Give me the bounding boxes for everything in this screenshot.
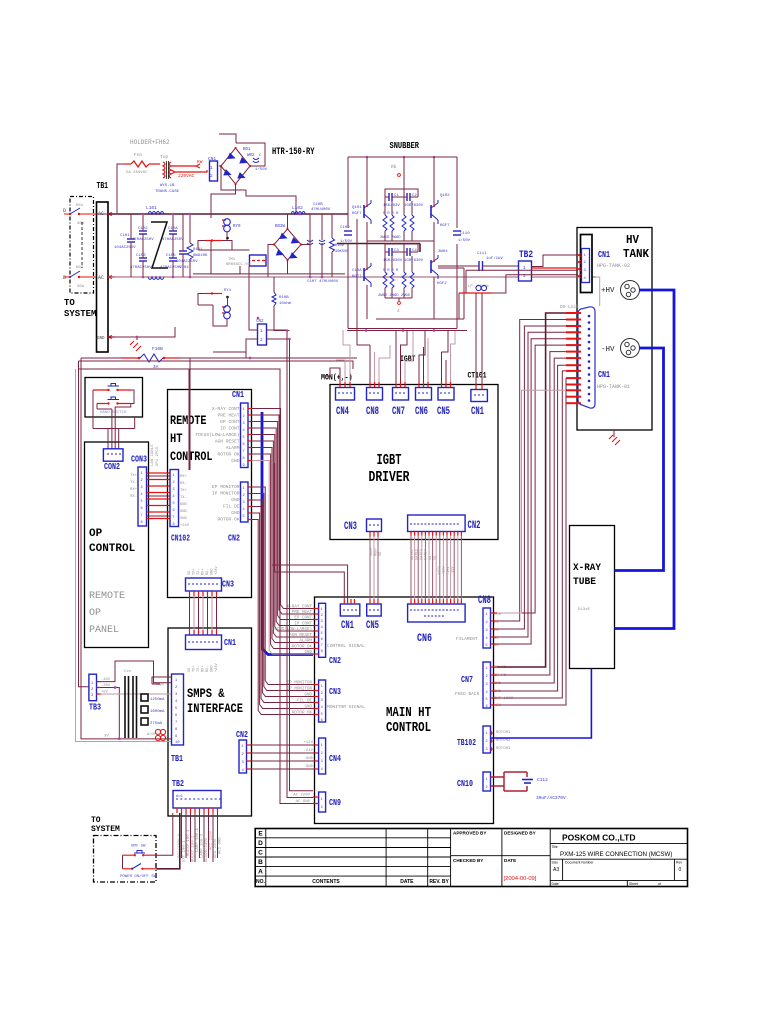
svg-text:EP CONT: EP CONT: [294, 617, 312, 621]
svg-text:CON2: CON2: [104, 462, 120, 472]
connector CN3 (remote bottom): [186, 578, 222, 591]
red wires CON3 to CN102: [147, 473, 171, 519]
svg-text:-48V: -48V: [101, 678, 111, 682]
svg-text:GND: GND: [97, 337, 105, 341]
svg-text:TB3: TB3: [89, 702, 101, 713]
CN9 pin labels: [293, 794, 310, 805]
svg-text:HAND SWITCH: HAND SWITCH: [100, 411, 127, 415]
TB1 terminal column: [97, 202, 109, 352]
svg-text:2: 2: [243, 494, 245, 498]
svg-text:CN3: CN3: [344, 521, 357, 533]
wire TB1 top loop: [152, 677, 172, 684]
svg-text:AC100/240V: AC100/240V: [204, 837, 209, 862]
svg-text:2W6D 2W6D 2W6D: 2W6D 2W6D 2W6D: [378, 294, 411, 298]
TB1 dashed switch box (left): [70, 197, 94, 294]
HV wire +HV: [615, 290, 675, 629]
svg-text:Txp: Txp: [160, 154, 168, 160]
svg-text:CN2: CN2: [329, 655, 341, 666]
junction dots: [114, 686, 117, 689]
svg-text:Sheet: Sheet: [629, 882, 638, 886]
fuse Fnn (holder): [124, 152, 160, 175]
approval labels: [453, 831, 536, 864]
svg-text:C: C: [258, 850, 263, 857]
svg-text:Q101: Q101: [352, 206, 362, 210]
red stubs CN7 right: [491, 667, 498, 705]
svg-text:4: 4: [321, 706, 323, 710]
svg-text:AGN RESET: AGN RESET: [289, 634, 312, 638]
svg-text:1: 1: [243, 408, 245, 412]
snubber bottom bus 1: [376, 268, 464, 319]
wires from CN6 up: [419, 331, 425, 383]
fuse block 3: [141, 718, 148, 725]
transformer core Z: [151, 222, 168, 268]
svg-text:4: 4: [243, 508, 245, 512]
rotated labels on CN2-CN6 wires: [411, 549, 456, 575]
svg-text:SG: SG: [434, 556, 438, 560]
svg-text:OP: OP: [89, 608, 101, 619]
HV wire -HV: [615, 348, 664, 571]
svg-text:R10D: R10D: [335, 244, 345, 248]
connector CN7 (main right): [483, 662, 491, 708]
svg-text:MON(+,-): MON(+,-): [321, 374, 353, 383]
svg-text:X-RAY: X-RAY: [573, 562, 602, 574]
svg-text:C104: C104: [179, 266, 189, 270]
svg-text:CT101: CT101: [468, 372, 487, 381]
resistor R101: [187, 214, 208, 277]
TB102 pin labels: [496, 731, 511, 751]
svg-text:470U400V: 470U400V: [311, 208, 331, 212]
svg-text:CN2: CN2: [468, 520, 481, 532]
svg-text:4: 4: [321, 768, 323, 772]
SMPS & INTERFACE block: [168, 628, 252, 816]
svg-text:3: 3: [173, 488, 175, 492]
svg-text:4: 4: [321, 626, 323, 630]
capacitor C103: [130, 248, 152, 277]
svg-text:BD2W: BD2W: [275, 225, 286, 229]
svg-text:D: D: [258, 840, 263, 847]
wires from CN7 up: [396, 331, 407, 383]
svg-text:470AC250V: 470AC250V: [130, 266, 152, 270]
svg-text:CN1: CN1: [232, 389, 244, 400]
svg-text:SYSTEM: SYSTEM: [64, 309, 96, 319]
red pin stubs above top connectors: [340, 382, 482, 389]
svg-text:CN1: CN1: [598, 249, 610, 260]
svg-text:Fnn: Fnn: [134, 152, 142, 158]
svg-text:6: 6: [321, 719, 323, 723]
red stubs CN8 right: [491, 613, 498, 644]
svg-text:1GR/630V: 1GR/630V: [383, 258, 403, 263]
wires from CT101 CN1 up to coil: [476, 293, 482, 384]
connector CN1 (main top): [340, 604, 360, 616]
svg-text:2: 2: [486, 675, 488, 679]
bridge rectifier BD1: [219, 147, 255, 185]
wires BD2 connections: [193, 214, 346, 277]
svg-text:A=G: A=G: [176, 795, 182, 799]
hand switch box: [85, 378, 143, 418]
red stubs main CN1/CN5 top: [344, 599, 354, 604]
svg-text:POSKOM CO.,LTD: POSKOM CO.,LTD: [562, 833, 636, 843]
svg-text:CN4: CN4: [329, 753, 341, 764]
svg-text:DRIVER: DRIVER: [369, 469, 410, 486]
svg-text:3: 3: [243, 422, 245, 426]
company row dividers: [550, 844, 687, 887]
svg-text:TB2: TB2: [519, 249, 533, 261]
CT101 coil: [457, 275, 578, 319]
svg-text:REV. BY: REV. BY: [429, 879, 449, 885]
X-RAY TUBE block: [570, 526, 615, 669]
transistor Q101: [352, 157, 371, 241]
svg-text:RX+: RX+: [202, 569, 206, 575]
svg-text:C102: C102: [138, 227, 148, 231]
svg-text:HTR-150-RY: HTR-150-RY: [272, 146, 315, 158]
CN7 pin labels: [494, 666, 514, 708]
svg-text:GND: GND: [306, 757, 314, 761]
svg-text:REMOTE: REMOTE: [170, 414, 207, 428]
svg-text:FIL DE: FIL DE: [223, 504, 240, 510]
fuse F10B: [121, 346, 180, 370]
svg-text:10K500: 10K500: [335, 250, 349, 254]
svg-text:DATE: DATE: [400, 879, 414, 885]
blue cable wire from CN1 remote down: [262, 412, 313, 655]
wires bridge BD1 loop: [219, 134, 296, 214]
svg-text:TX-: TX-: [180, 496, 187, 500]
approval section grid: [451, 829, 551, 887]
svg-text:KGF7: KGF7: [440, 224, 450, 228]
svg-text:Rb: Rb: [391, 164, 397, 170]
svg-text:RX+: RX+: [130, 488, 138, 492]
title block outer frame: [255, 829, 687, 887]
D-sub connector CN1 shell: [578, 307, 595, 408]
svg-text:L102: L102: [292, 205, 303, 211]
svg-text:BD1: BD1: [243, 148, 251, 152]
svg-text:1250mA: 1250mA: [150, 698, 165, 702]
svg-text:HOLDER+FH62: HOLDER+FH62: [130, 139, 170, 146]
long wire lower bus: [78, 368, 189, 370]
transistor Q104: [431, 241, 448, 319]
svg-text:CN4: CN4: [336, 406, 349, 418]
relay coil RY1: [198, 289, 232, 326]
svg-text:RY0: RY0: [233, 225, 241, 229]
connector CN8: [367, 388, 383, 401]
left vertical feeder wires: [81, 358, 172, 739]
capacitor C10B: [307, 203, 331, 277]
svg-text:1: 1: [210, 165, 213, 171]
TB102 pin hooks red: [491, 731, 493, 751]
corridor vertical wire x280: [189, 369, 313, 804]
svg-text:HPG-TANK-02: HPG-TANK-02: [597, 263, 630, 269]
red stubs CN9: [313, 797, 319, 804]
connector CN7: [393, 388, 409, 401]
resistor R10C: [330, 214, 350, 277]
wires D-sub to CN8: [497, 320, 566, 645]
svg-text:POWER ON/OFF SW: POWER ON/OFF SW: [120, 874, 157, 879]
TB1 pin arrows red: [108, 213, 115, 339]
+HV receptacle: [621, 281, 640, 300]
svg-text:ROTOR1: ROTOR1: [496, 731, 511, 735]
svg-text:DESIGNED BY: DESIGNED BY: [504, 831, 536, 836]
wire D-sub pin13 spare: [497, 390, 566, 613]
svg-text:AC1 220V: AC1 220V: [210, 830, 214, 850]
bus junction dots: [365, 329, 368, 332]
svg-text:RX-: RX-: [206, 666, 210, 672]
svg-text:C101: C101: [120, 234, 130, 238]
revision table grid: [255, 829, 450, 887]
svg-text:3: 3: [141, 486, 143, 490]
svg-text:220VAC: 220VAC: [178, 173, 195, 179]
svg-text:2: 2: [210, 173, 213, 179]
svg-text:CN5: CN5: [437, 406, 450, 418]
long wire from fuse to right: [81, 357, 357, 359]
wires from CN8 up: [357, 219, 370, 382]
svg-text:KGF2: KGF2: [437, 282, 447, 286]
svg-text:CONTROL: CONTROL: [170, 450, 213, 464]
svg-text:MON+: MON+: [370, 547, 374, 556]
svg-text:ROTOR OK: ROTOR OK: [217, 452, 239, 458]
capacitor C4: [398, 248, 424, 263]
wire TB2 pins to switch box: [156, 813, 173, 855]
svg-text:1: 1: [486, 613, 488, 617]
svg-text:TANK: TANK: [623, 248, 649, 261]
svg-text:R10B: R10B: [279, 296, 289, 300]
svg-text:C109: C109: [340, 226, 350, 230]
svg-text:LAMP 100-1: LAMP 100-1: [196, 827, 200, 852]
svg-text:8: 8: [321, 650, 323, 654]
connector CN1 (CT101): [471, 390, 488, 402]
relay contact bottom: [0, 0, 1, 1]
svg-text:2: 2: [173, 481, 175, 485]
svg-text:TX+: TX+: [193, 666, 197, 672]
wire cap row 2 joins: [385, 244, 418, 252]
wire left drop to C109: [347, 157, 349, 319]
svg-text:3: 3: [321, 699, 323, 703]
svg-text:MON-: MON-: [375, 547, 379, 556]
svg-text:4: 4: [173, 495, 175, 499]
svg-text:SG: SG: [429, 556, 433, 560]
svg-text:SNUBBER: SNUBBER: [390, 140, 420, 151]
svg-text:Rev: Rev: [676, 861, 682, 865]
CN1 pin stubs red: [578, 254, 581, 278]
capacitor C107 (bridge output): [253, 154, 268, 172]
capacitor C3: [383, 248, 403, 263]
svg-text:CONTROL: CONTROL: [386, 720, 431, 736]
wire loop to TM1: [198, 241, 250, 275]
svg-text:SG: SG: [188, 668, 192, 672]
red wire pair to CN1: [171, 159, 207, 179]
svg-text:1: 1: [486, 778, 488, 782]
svg-text:IP MONITOR: IP MONITOR: [212, 491, 240, 497]
svg-text:F10B: F10B: [152, 346, 163, 352]
svg-text:8: 8: [173, 523, 175, 527]
CN3 rotated pin labels: [188, 566, 219, 575]
svg-text:MONITOR SIGNAL: MONITOR SIGNAL: [327, 704, 365, 710]
svg-text:of: of: [658, 882, 661, 886]
connector CN9 (main left): [319, 792, 326, 812]
capacitor C104: [176, 214, 198, 277]
svg-text:CN7: CN7: [392, 406, 405, 418]
svg-text:NO.: NO.: [256, 879, 266, 885]
svg-text:A/GF W: A/GF W: [147, 732, 161, 737]
hand switch push button 2: [97, 397, 130, 405]
svg-text:C10B: C10B: [313, 203, 323, 207]
D-sub right column pins: [588, 315, 591, 402]
svg-text:RX-: RX-: [130, 495, 137, 499]
TB102 blue wire to X-ray tube: [491, 669, 592, 739]
svg-text:1: 1: [486, 732, 488, 736]
svg-text:5: 5: [321, 632, 323, 636]
svg-text:AC 220V: AC 220V: [293, 794, 310, 798]
resistor R10B: [272, 277, 292, 331]
svg-text:PANEL: PANEL: [89, 625, 119, 636]
wires hand switch to CON2: [108, 409, 119, 449]
svg-text:5: 5: [243, 515, 245, 519]
svg-text:5A 250VAC: 5A 250VAC: [126, 171, 148, 175]
wires to CN2 aux: [213, 266, 258, 358]
svg-text:GND: GND: [231, 497, 240, 503]
red stubs into main CN2 pins: [313, 609, 319, 655]
inductor L102: [291, 205, 305, 214]
svg-text:TB1: TB1: [97, 181, 109, 191]
svg-text:EP MONITOR: EP MONITOR: [212, 484, 240, 490]
snubber top bus wire: [348, 156, 457, 158]
OP CONTROL block: [85, 442, 149, 648]
wire GND from TB1: [108, 327, 175, 337]
junction dots corridor: [286, 329, 289, 332]
capacitor C111: [438, 252, 521, 271]
svg-text:470AC250V: 470AC250V: [132, 238, 154, 242]
wire AC line top from TB1: [108, 213, 348, 215]
snubber mid bus wire: [367, 240, 434, 242]
svg-text:TX+: TX+: [130, 474, 138, 478]
CN1 pin numbers: [584, 254, 587, 281]
svg-text:LAN CABLE: LAN CABLE: [151, 444, 155, 466]
wire TB2 to HV tank CN1 pin1: [532, 255, 579, 267]
svg-text:ROTOR OK: ROTOR OK: [292, 712, 313, 716]
svg-text:-HV: -HV: [601, 346, 615, 354]
connector CN3 (main left): [319, 680, 326, 722]
transformer Txp: [155, 154, 180, 194]
svg-text:C107 470U400V: C107 470U400V: [307, 280, 339, 284]
switch K01 contact (bottom): [63, 266, 96, 289]
rotated labels on CN3-CN5 wires: [370, 547, 383, 556]
terminal TB3: [89, 674, 97, 701]
svg-text:AC1 220V: AC1 220V: [214, 838, 218, 858]
svg-text:C105: C105: [166, 254, 176, 258]
svg-text:CN1: CN1: [471, 406, 484, 418]
svg-text:Date: Date: [552, 882, 559, 886]
vertical wire x189 from y369: [188, 369, 190, 470]
capacitor C2: [398, 193, 424, 208]
svg-text:BUCKY 100-1: BUCKY 100-1: [187, 829, 191, 856]
svg-text:APPROVED BY: APPROVED BY: [453, 831, 486, 836]
hand switch loop wires: [93, 390, 135, 429]
svg-text:2W6D 2W6D: 2W6D 2W6D: [380, 236, 401, 240]
svg-text:5Px 2PCS: 5Px 2PCS: [156, 446, 160, 466]
svg-text:2: 2: [321, 692, 323, 696]
svg-text:C10A: C10A: [168, 227, 178, 231]
connector CN5: [438, 388, 454, 401]
inductor L101 bottom coil: [148, 277, 164, 280]
svg-text:470AC250V: 470AC250V: [162, 238, 184, 242]
svg-text:2: 2: [321, 752, 323, 756]
svg-text:FILAMENT: FILAMENT: [456, 636, 478, 642]
TB3 wires to TB1: [97, 682, 101, 694]
CN1 pin labels: [195, 406, 239, 464]
svg-text:30A: 30A: [77, 285, 85, 289]
svg-text:L101: L101: [146, 205, 157, 211]
TB3 wire labels: [101, 678, 165, 695]
svg-text:ROTOR2: ROTOR2: [496, 739, 511, 743]
wire TB2 to HV tank CN1 pin2 (red): [532, 267, 579, 269]
svg-text:C112: C112: [537, 777, 548, 783]
D-sub pins (left red bars): [566, 313, 581, 403]
svg-text:CON3: CON3: [131, 455, 147, 465]
svg-text:CN7: CN7: [461, 674, 473, 685]
junction on fuse wire: [249, 357, 252, 360]
relay coil RY0: [222, 219, 241, 241]
red stubs into main CN3 pins: [313, 685, 319, 715]
fuse block 2: [141, 706, 148, 713]
terminal TB2: [519, 249, 534, 281]
svg-text:CN8: CN8: [478, 595, 491, 607]
svg-text:10: 10: [175, 741, 180, 745]
snubber top bus junctions: [366, 156, 369, 159]
svg-text:TB102: TB102: [457, 737, 476, 748]
svg-text:TX-: TX-: [130, 481, 137, 485]
wire junctions on AC lines: [142, 213, 145, 216]
CN2 aux connector: [256, 320, 267, 345]
svg-text:5: 5: [141, 500, 143, 504]
svg-text:0: 0: [679, 867, 682, 873]
svg-text:+15V: +15V: [443, 566, 447, 575]
feeder wires into main CN1 top: [272, 461, 348, 600]
svg-text:7: 7: [243, 450, 245, 454]
snubber mid bus 2: [337, 244, 420, 253]
REMOTE HT CONTROL block: [168, 390, 252, 598]
svg-text:CN102: CN102: [171, 533, 190, 544]
svg-text:CN2: CN2: [228, 533, 240, 544]
svg-text:R R R R: R R R R: [383, 212, 399, 216]
switch loop wire left: [122, 855, 124, 869]
red contact wire 1: [198, 237, 229, 250]
vertical wire x190 down: [189, 358, 191, 470]
terminal TB102: [483, 726, 491, 753]
CON3 pin labels: [130, 474, 138, 499]
svg-text:RX-: RX-: [180, 482, 187, 486]
svg-text:3: 3: [321, 620, 323, 624]
svg-text:3: 3: [486, 683, 488, 687]
svg-text:104AC250V: 104AC250V: [114, 246, 136, 250]
svg-text:2W04: 2W04: [438, 250, 448, 254]
svg-text:6: 6: [141, 507, 143, 511]
svg-text:6W910K: 6W910K: [193, 254, 208, 258]
svg-text:CN2: CN2: [236, 729, 248, 740]
svg-text:HV: HV: [626, 234, 639, 247]
svg-text:CN1: CN1: [224, 637, 236, 648]
junction on GND wire: [136, 336, 139, 339]
svg-text:+15V: +15V: [438, 566, 442, 575]
svg-text:30uF/AC370V: 30uF/AC370V: [536, 795, 566, 801]
svg-text:1GR/630V: 1GR/630V: [404, 258, 424, 263]
svg-text:4: 4: [486, 691, 488, 695]
connector CN1 (SMPS top): [186, 635, 222, 650]
wires IGBT CN2 down to CN6 (14): [411, 532, 461, 605]
svg-text:6: 6: [486, 705, 488, 709]
svg-text:BR66XCC-03: BR66XCC-03: [226, 263, 251, 267]
svg-text:+24V: +24V: [180, 524, 190, 528]
terminal TB1 (SMPS): [172, 674, 184, 745]
svg-text:-28V: -28V: [101, 684, 111, 688]
svg-text:SMPS &: SMPS &: [187, 687, 225, 701]
